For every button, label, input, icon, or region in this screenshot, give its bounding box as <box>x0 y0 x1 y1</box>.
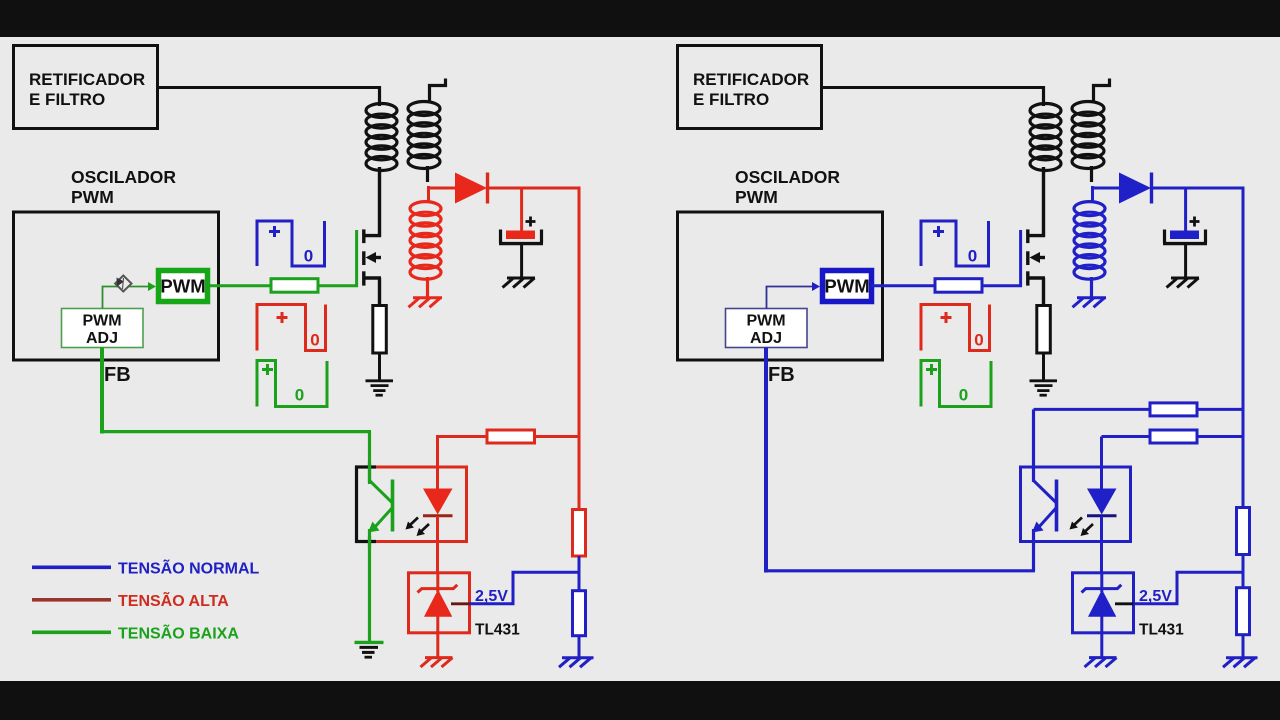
TL431 box (red) <box>409 573 470 633</box>
svg-text:TENSÃO NORMAL: TENSÃO NORMAL <box>118 558 260 578</box>
wire rectifier to transformer right <box>821 86 1045 89</box>
transformer secondary (top) coil <box>408 79 446 183</box>
svg-text:0: 0 <box>968 247 977 266</box>
MOSFET Q2 <box>1028 167 1045 306</box>
oscillator block box right <box>678 212 883 360</box>
chassis ground under capacitor <box>503 278 536 288</box>
rectifier block box (RETIFICADOR E FILTRO) <box>14 46 158 129</box>
transformer primary coil <box>366 86 397 171</box>
PWM ADJ block right <box>726 309 808 348</box>
legend: high voltage <box>32 590 229 610</box>
gate resistor (blue) <box>935 279 982 293</box>
feedback resistor B (blue, horizontal) with wires <box>1102 430 1245 468</box>
svg-text:0: 0 <box>304 247 313 266</box>
feedback series resistor (red, horizontal) <box>487 430 535 443</box>
wire resistor to ground right <box>1042 353 1045 381</box>
optocoupler phototransistor (green) <box>368 480 393 643</box>
svg-text:TENSÃO BAIXA: TENSÃO BAIXA <box>118 623 239 643</box>
reference wire (blue) from TL431 to divider <box>470 572 581 604</box>
wire to capacitor <box>520 188 523 231</box>
wire resistor to ground <box>378 353 381 381</box>
svg-text:TL431: TL431 <box>1139 622 1184 639</box>
legend: normal voltage <box>32 558 260 578</box>
wire secondary to diode (red) <box>427 186 456 203</box>
svg-text:PWM: PWM <box>824 276 869 297</box>
earth ground under source resistor <box>366 381 394 395</box>
lower divider resistor (blue, vertical) <box>573 591 586 636</box>
TL431 box right (blue) <box>1073 573 1134 633</box>
FB wire (green) from PWM ADJ down and right to optocoupler <box>100 348 371 483</box>
svg-text:RETIFICADOR: RETIFICADOR <box>29 70 145 89</box>
chassis ground (blue) <box>559 658 594 667</box>
svg-text:OSCILADOR: OSCILADOR <box>735 167 840 187</box>
wire PWM ADJ to PWM with arrow <box>103 282 157 309</box>
chassis ground under blue coil <box>1073 298 1107 308</box>
svg-text:0: 0 <box>959 386 968 405</box>
waveform normal (blue) right <box>921 221 989 266</box>
svg-text:PWM: PWM <box>82 313 121 330</box>
wire to ground (blue) <box>578 636 581 659</box>
chassis ground under capacitor right <box>1167 278 1200 288</box>
svg-text:ADJ: ADJ <box>86 330 118 347</box>
output rail vertical (blue) <box>1242 187 1245 508</box>
PWM block (blue) <box>823 271 872 302</box>
PWM block (green) <box>159 271 208 302</box>
filter capacitor C2 (polarized) <box>1163 217 1207 279</box>
upper divider resistor right (blue, vertical) <box>1237 508 1250 555</box>
transformer secondary (top) coil right <box>1072 79 1110 183</box>
label OSCILADOR PWM <box>71 167 176 207</box>
wire secondary to diode (blue) <box>1091 186 1120 203</box>
svg-text:PWM: PWM <box>160 276 205 297</box>
chassis ground under red coil <box>409 298 443 308</box>
MOSFET Q1 <box>364 167 381 306</box>
optocoupler LED (red) <box>423 466 453 574</box>
bottom letterbox bar <box>0 681 1280 720</box>
wire PWM out to gate resistor (blue) <box>871 284 935 287</box>
feedback wire to divider resistor (red) <box>436 435 581 468</box>
output rail vertical (red) <box>578 187 581 510</box>
secondary winding coil (red) <box>410 202 441 297</box>
top letterbox bar <box>0 0 1280 37</box>
wire between divider resistors (blue) <box>578 556 581 591</box>
earth ground (green/black) under phototransistor <box>355 642 384 657</box>
gate resistor (green) <box>271 279 318 293</box>
earth ground under source resistor right <box>1030 381 1058 395</box>
wire resistor to gate <box>318 284 358 287</box>
waveform high (red) <box>257 305 326 351</box>
svg-text:ADJ: ADJ <box>750 330 782 347</box>
light arrows <box>406 518 430 537</box>
optocoupler phototransistor (blue) <box>1032 480 1057 533</box>
svg-text:RETIFICADOR: RETIFICADOR <box>693 70 809 89</box>
PWM ADJ block <box>62 309 144 348</box>
lower divider resistor right (blue, vertical) <box>1237 588 1250 635</box>
wire between divider resistors right <box>1242 555 1245 589</box>
svg-text:FB: FB <box>768 364 795 386</box>
gate wire vertical (blue) <box>1019 230 1022 287</box>
gate wire vertical (green) <box>355 230 358 287</box>
wire to capacitor right <box>1184 188 1187 231</box>
svg-text:OSCILADOR: OSCILADOR <box>71 167 176 187</box>
wire PWM ADJ to PWM with arrow (blue) <box>767 282 821 309</box>
chassis ground under TL431 right (blue) <box>1085 658 1117 667</box>
oscillator block box <box>14 212 219 360</box>
wire (green) over box edge <box>368 462 371 484</box>
feedback resistor A (blue, horizontal) with wires <box>1034 403 1245 416</box>
svg-text:0: 0 <box>310 331 319 350</box>
optocoupler box right (blue) <box>1021 467 1131 542</box>
optocoupler LED (blue) <box>1087 466 1117 574</box>
FB wire (blue) from PWM ADJ down and right to optocoupler <box>764 348 1035 573</box>
svg-text:PWM: PWM <box>735 187 778 207</box>
TL431 shunt regulator symbol right <box>1082 572 1134 658</box>
light arrows right <box>1070 518 1094 537</box>
reference wire (blue) from TL431 to divider right <box>1134 572 1245 604</box>
rectifier block box right (RETIFICADOR E FILTRO) <box>678 46 822 129</box>
wire rectifier to transformer <box>157 86 381 89</box>
diamond marker icon <box>115 276 131 292</box>
svg-text:PWM: PWM <box>746 313 785 330</box>
svg-text:0: 0 <box>974 331 983 350</box>
waveform low (green) <box>257 361 327 407</box>
legend: low voltage <box>32 623 239 643</box>
svg-text:FB: FB <box>104 364 131 386</box>
svg-text:TENSÃO ALTA: TENSÃO ALTA <box>118 590 229 610</box>
svg-text:TL431: TL431 <box>475 622 520 639</box>
filter capacitor C1 (polarized) <box>499 217 543 279</box>
label OSCILADOR PWM right <box>735 167 840 207</box>
chassis ground right rail (blue) <box>1223 658 1258 667</box>
waveform high (red) right <box>921 305 990 351</box>
waveform low (green) right <box>921 361 991 407</box>
wire PWM out to gate resistor <box>207 284 271 287</box>
source resistor below MOSFET right <box>1037 306 1051 354</box>
wire resistor to gate (blue) <box>982 284 1022 287</box>
waveform normal (blue) <box>257 221 325 266</box>
output diode (blue) <box>1119 173 1245 204</box>
svg-text:0: 0 <box>295 386 304 405</box>
upper divider resistor (red, vertical) <box>573 510 586 557</box>
chassis ground under TL431 (red) <box>421 658 453 667</box>
svg-text:E FILTRO: E FILTRO <box>29 90 105 109</box>
wire to ground right <box>1242 635 1245 659</box>
optocoupler box <box>355 466 467 544</box>
secondary winding coil (blue) <box>1074 202 1105 297</box>
phototransistor collector wire (blue) <box>1032 409 1035 482</box>
output diode (red) <box>455 173 581 204</box>
svg-text:PWM: PWM <box>71 187 114 207</box>
TL431 shunt regulator symbol <box>418 572 470 658</box>
source resistor below MOSFET <box>373 306 387 354</box>
transformer primary coil right <box>1030 86 1061 171</box>
svg-text:E FILTRO: E FILTRO <box>693 90 769 109</box>
